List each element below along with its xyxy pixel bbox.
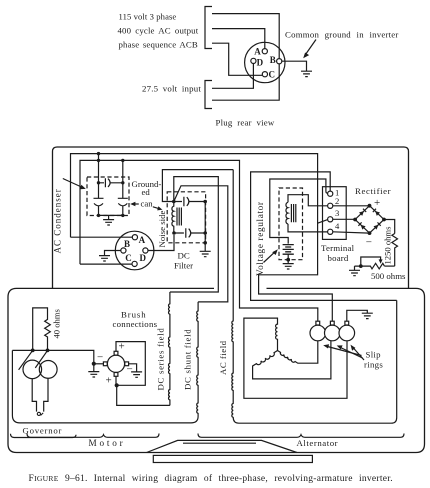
arrow: slip ring callout 2 [341,348,363,359]
svg-text:Common ground in inverter: Common ground in inverter [285,30,399,40]
wire: internal pin D to DC filter [148,235,174,251]
svg-text:4: 4 [335,221,340,231]
svg-text:+: + [106,375,112,387]
svg-text:Voltage regulator: Voltage regulator [256,201,266,276]
svg-text:B: B [124,239,130,249]
inductor: regulator coil [286,202,288,224]
wire: terminal 1 hook to carbon pile [270,179,328,244]
arrow: AC condenser callout [63,179,82,188]
wire: top brush loop to bottom brush [116,342,145,386]
regulator coil core lines [291,204,295,222]
wire: left brush lead [94,363,103,365]
node dots: condenser junctions [97,152,125,217]
slip ring 1 (left) [310,325,326,341]
wire: internal pin B to ground [105,251,121,256]
wire: internal pin A lead [71,236,133,238]
wire: divider to ground [354,266,356,270]
svg-text:A: A [254,47,261,57]
terminal 4 [328,229,333,234]
svg-text:40 ohms: 40 ohms [52,308,62,338]
resistor R2: 500 ohms (horizontal zigzag) [355,263,385,269]
wire: branch to terminal 3 [318,220,328,224]
wire: terminal 4 to rectifier bottom [333,232,370,233]
wire: coil bottom to terminal 4 [288,224,328,232]
mounting base dome [147,440,297,452]
governor flyweight right [39,361,57,379]
wire: phase to pin B / ground rail [212,14,279,101]
wire: input to pin D [212,64,253,89]
case: upper section rounded box [53,147,409,288]
pin A [262,49,267,54]
wire: terminal 3 to rectifier left [333,218,355,220]
svg-text:D: D [140,253,147,263]
winding: Y phase right leg to left slip ring [278,341,318,363]
svg-text:can: can [141,198,154,208]
node dots: bridge corners [353,204,386,235]
ground: DC filter ground [200,251,211,256]
arrow: grounded can to filter box [153,207,159,209]
svg-text:DC series field: DC series field [156,328,166,391]
ground: motor left ground [88,372,99,377]
svg-text:1250 ohms: 1250 ohms [382,226,392,265]
svg-text:2: 2 [335,196,339,206]
wire: terminal 1 rail to alternator loop [251,172,397,301]
wire: filter ground rail [204,202,206,252]
wire: left junction to ground [93,364,95,372]
arrow: slip ring callout 1 [328,347,362,356]
svg-text:Alternator: Alternator [297,438,339,448]
svg-text:ed: ed [142,187,151,197]
ground: regulator ground [283,264,294,269]
wire: governor bus [12,350,93,363]
svg-text:27.5 volt input: 27.5 volt input [142,84,201,94]
node dots: governor bus junctions [31,349,96,366]
ground: divider ground [349,270,360,275]
arrow: voltage regulator callout [264,252,275,262]
node dots: filter junctions [172,200,207,245]
svg-text:Brush: Brush [121,310,147,320]
terminal 2 [328,203,333,208]
svg-text:D: D [257,58,264,68]
carbon pile resistor (regulator) [283,245,294,255]
wire: condenser drop 2 [122,160,124,215]
resistor R1: 1250 ohms (vertical zigzag) [392,234,398,267]
svg-text:Slip: Slip [366,350,382,360]
enclosure: DC filter noise-side box (dashed) [167,192,205,243]
enclosure: voltage regulator (dashed) [279,188,303,260]
capacitor C1 (vertical, in can) [94,198,104,205]
svg-text:115 volt 3 phase: 115 volt 3 phase [119,12,177,22]
motor armature [107,355,124,372]
arrow: grounded can to condenser box [134,203,139,205]
svg-text:Noise side: Noise side [157,211,167,248]
svg-text:AC field: AC field [218,340,228,375]
capacitor C4: filter top capacitor [174,197,205,206]
svg-text:+: + [374,197,380,209]
arrow: common ground callout [306,40,317,55]
wire: coil top to terminal 2 [288,195,328,206]
svg-text:+: + [119,341,125,353]
terminal 1 [328,191,333,196]
inductor L1: DC filter choke [172,202,174,234]
ground: slip ring ground [362,313,373,318]
svg-text:AC Condenser: AC Condenser [53,188,63,253]
brush: left [103,362,107,366]
svg-text:A: A [139,235,146,245]
wire: phase rail C (plug C to left slip ring brush) [80,160,318,321]
bracket: AC output connector [205,7,212,49]
mounting base slab [153,455,312,462]
bracket: governor label [11,434,77,438]
svg-text:C: C [125,253,132,263]
wire: right brush to ground [129,364,137,372]
wire: pin B to common ground [282,61,307,71]
pin D [251,58,256,63]
svg-text:rings: rings [364,360,383,370]
wire: terminal 2 to rectifier top [333,205,370,207]
wire: phase to pin C [212,43,262,75]
svg-text:−: − [97,352,103,364]
wire: phase to pin A [212,29,265,49]
svg-text:phase sequence ACB: phase sequence ACB [119,40,198,50]
wire: phase rail A (plug A to terminal 3 and middle slip ring) [71,154,333,321]
wire: filter output riser to AC field feed [162,170,233,202]
governor arm diagonal right [35,350,48,368]
svg-text:Governor: Governor [23,426,63,436]
connector shell: internal plug circle [115,231,154,270]
brush: bottom [114,373,118,377]
governor arm diagonal left [19,350,33,370]
governor contact tip [37,412,40,415]
pin D (internal) [143,248,148,253]
ground: internal plug pin B ground [99,256,110,261]
svg-text:DC shunt field: DC shunt field [183,329,193,390]
slip ring 2 (middle) [325,325,341,341]
capacitor C3 (horizontal, between drops) [99,178,123,187]
wire: to 500 ohm resistor [384,265,394,267]
svg-text:B: B [270,55,276,65]
governor plunger [32,378,48,412]
pin B [277,59,282,64]
svg-text:C: C [269,70,276,80]
pin C [262,72,267,77]
brace: alternator region [198,434,404,438]
svg-text:Filter: Filter [174,261,193,271]
slip ring 3 (right) [339,325,355,341]
brush: slip ring 2 [330,321,334,325]
wire: motor loop left/bottom border [12,350,191,423]
svg-text:400 cycle AC output: 400 cycle AC output [118,26,199,36]
ground: common ground in inverter [301,71,312,76]
wire: can bottom bus [99,215,123,219]
wire: bottom brush to series field return [116,377,170,406]
svg-text:500 ohms: 500 ohms [371,271,406,281]
svg-text:connections: connections [113,319,158,329]
inductor: DC shunt field [191,302,198,423]
diode D3 (bottom-left arm) [361,225,366,230]
brush: right [125,362,129,366]
svg-text:board: board [328,253,349,263]
ground: motor right ground [131,372,142,377]
brush: top [114,351,118,355]
pin B (internal) [121,248,126,253]
svg-text:3: 3 [335,208,339,218]
pin A (internal) [132,235,137,240]
svg-text:−: − [127,364,133,376]
terminal 3 [328,217,333,222]
wire: pile to ground [287,254,289,263]
capacitor C2 (vertical, in can) [118,198,128,205]
diode D1 (top-left arm) [359,211,364,216]
connector shell: plug rear view circle [245,42,285,82]
inductor core lines [177,208,181,226]
brush: slip ring 1 [316,321,320,325]
governor flyweight left [23,360,42,379]
brush: slip ring 3 [345,321,349,325]
wiper tap on 500 ohms [361,257,381,266]
svg-text:−: − [366,237,372,249]
wire: internal pin C lead [80,263,132,265]
brace: motor region [27,434,159,438]
svg-text:Motor: Motor [89,438,126,448]
svg-text:Rectifier: Rectifier [355,186,391,196]
winding: Y phase top leg to right slip ring [244,318,347,398]
svg-text:DC: DC [178,251,190,261]
wire: rectifier + to resistor string [384,220,395,234]
wire: filter output to DC series field feed [170,177,218,292]
capacitor C5: filter bottom capacitor [174,228,205,237]
case: lower section rounded box with wire gap at top [8,288,425,452]
winding: Y phase left leg to middle slip ring [253,341,331,379]
terminal board body [323,187,347,240]
svg-text:FIGURE 9–61.Internal wiring di: FIGURE 9–61.Internal wiring diagram of t… [29,473,393,484]
ground: condenser can ground [103,220,114,225]
svg-text:Terminal: Terminal [321,243,355,253]
arrow: slip ring callout 3 [353,348,364,361]
diode D4 (bottom-right arm) [374,225,379,230]
pin C (internal) [132,261,137,266]
diode D2 (top-right arm) [375,211,380,216]
inductor: DC series field [169,292,170,405]
bracket: 27.5 volt input connector [205,81,212,109]
wire: right slip ring brush to ground [347,310,368,321]
resistor R3: 40 ohms with U link [33,308,51,351]
wire: condenser drop 1 [98,154,100,216]
inductor: AC field [232,170,397,424]
wire: filter output diagonal to DC shunt field feed [174,186,228,302]
enclosure: AC condenser grounded can (dashed) [87,177,129,216]
rectifier bridge diamond [355,206,384,233]
svg-text:Plug rear view: Plug rear view [216,118,275,128]
